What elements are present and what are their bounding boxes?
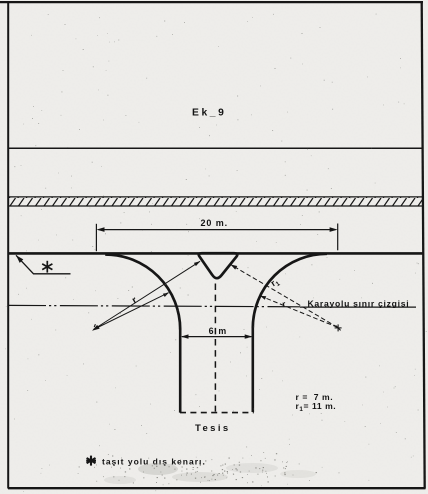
highway road edge (taşıt yolu dış kenarı) [8,252,423,255]
traffic island triangle [199,253,238,278]
right radius center star [335,324,342,331]
hatched median band [8,197,423,206]
highway upper separator line [8,147,422,149]
svg-text:20 m.: 20 m. [201,218,229,228]
svg-text:Tesis: Tesis [195,423,231,434]
right radius line r1 (dashed, to island corner) [231,265,338,328]
right curb curve [253,254,327,328]
dimension 6 m [182,336,251,338]
left radius line r (to curb arc) [94,293,169,330]
stem centerline dashed [214,284,216,412]
left radius center arrow [92,325,100,331]
footnote asterisk [86,456,96,466]
svg-text:6 m: 6 m [209,326,228,336]
svg-text:Karayolu sınır çizgisi: Karayolu sınır çizgisi [308,298,410,308]
horizontal centerline (karayolu sınır çizgisi) [8,305,300,306]
right stem edge [252,327,255,413]
facility entrance dashed line [180,412,254,414]
right radius line r (dashed, to curb arc) [260,296,338,328]
svg-text:Ek_9: Ek_9 [192,107,226,118]
left stem edge [179,329,182,413]
asterisk symbol [42,261,52,273]
arrow at island left corner [194,261,200,266]
left radius line r1 (to island corner) [94,261,201,329]
asterisk leader on road edge [16,255,71,273]
arrow at island right corner [231,265,238,270]
dimension 20 m [96,224,337,252]
scan smudges [104,463,316,484]
left curb curve [105,255,180,330]
